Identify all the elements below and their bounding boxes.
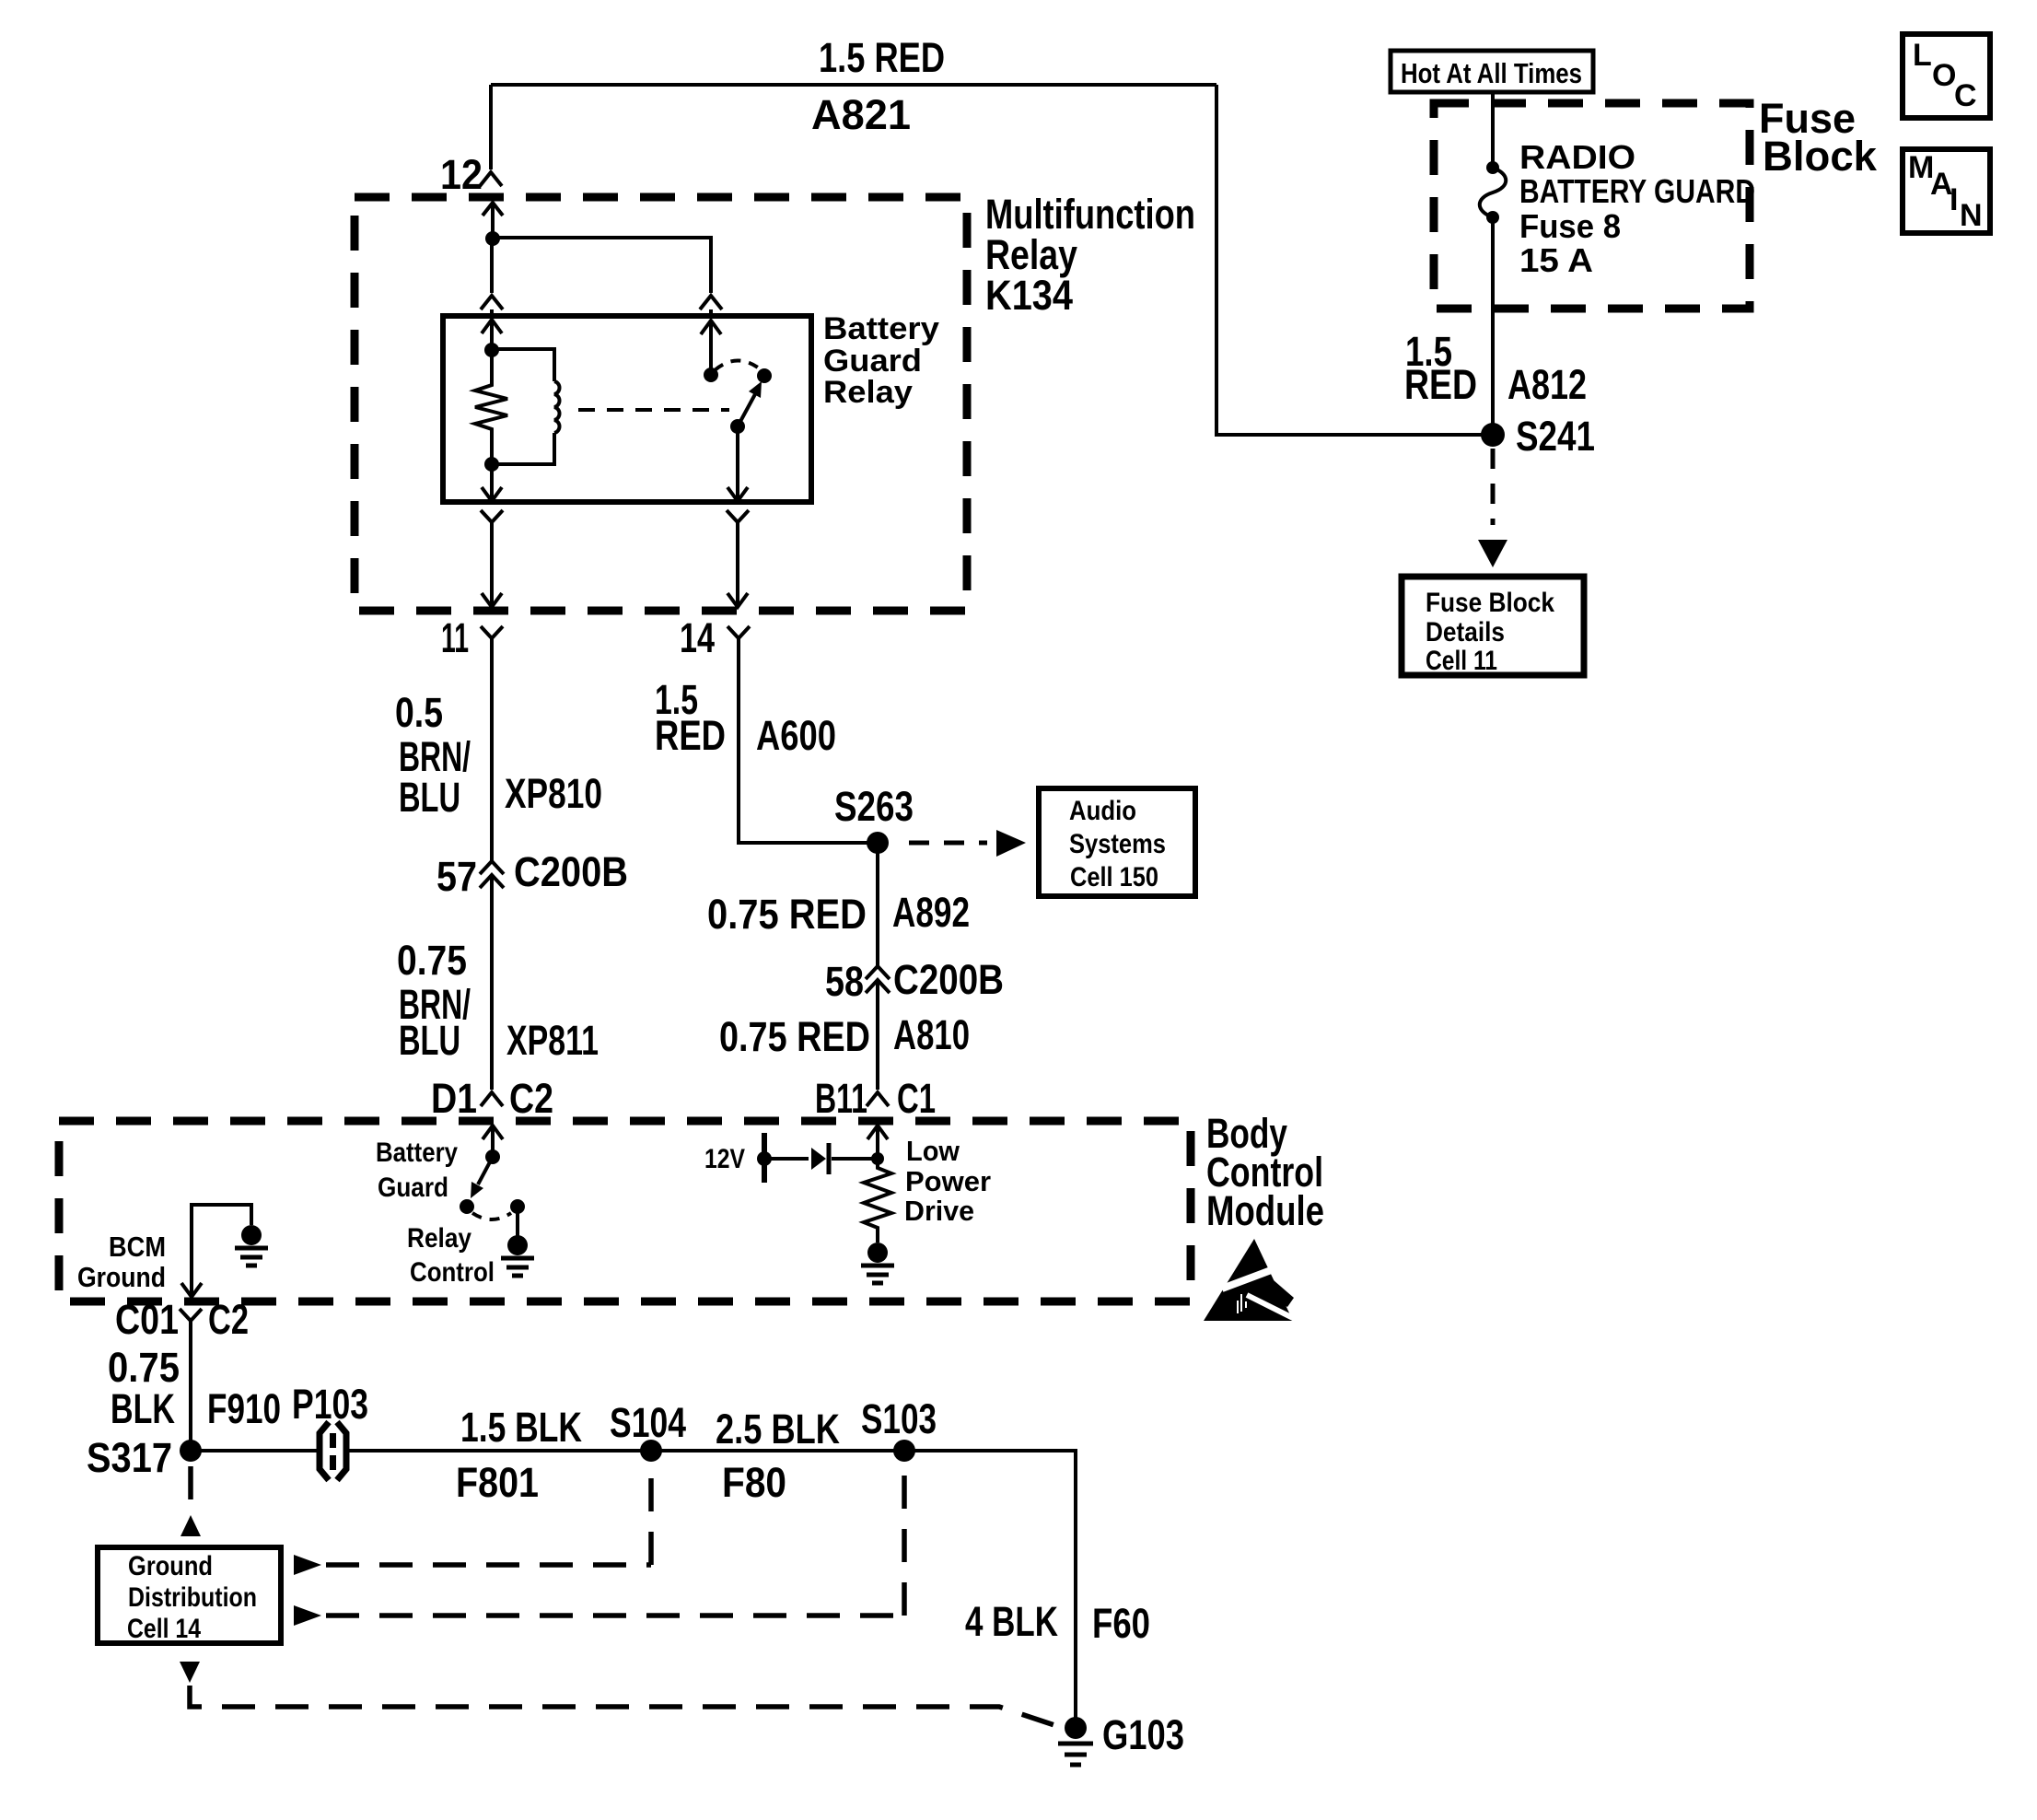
label Relay Control bbox=[407, 1223, 495, 1288]
label 0.5 BRN/BLU bbox=[395, 689, 471, 821]
wire XP811 lower segment bbox=[490, 876, 494, 1090]
wire A812 1.5 RED bbox=[1491, 219, 1495, 424]
wire pin11 inside module bbox=[482, 522, 502, 607]
svg-text:B11: B11 bbox=[815, 1075, 867, 1122]
ground G103 bbox=[1058, 1717, 1093, 1765]
wire ground bus left of P103 bbox=[191, 1449, 318, 1452]
svg-text:C200B: C200B bbox=[893, 956, 1004, 1003]
svg-text:C01: C01 bbox=[115, 1296, 179, 1343]
connector Y pin 14 bbox=[727, 626, 750, 638]
Fuse Block Details Cell 11 reference box bbox=[1402, 577, 1584, 676]
svg-text:BCM: BCM bbox=[109, 1231, 166, 1263]
svg-text:A810: A810 bbox=[893, 1011, 970, 1058]
wire A821 1.5 RED horizontal bbox=[491, 83, 1216, 87]
wire to relay control ground bbox=[516, 1207, 519, 1236]
node S241 splice bbox=[1481, 423, 1505, 447]
svg-text:Battery: Battery bbox=[376, 1137, 458, 1168]
Fuse Block dashed box bbox=[1434, 103, 1750, 309]
wire BCM ground hook bbox=[181, 1205, 251, 1297]
Audio Systems Cell 150 reference box bbox=[1039, 788, 1195, 896]
wire F60 4 BLK bbox=[904, 1451, 1076, 1719]
svg-text:11: 11 bbox=[441, 614, 469, 661]
svg-text:P103: P103 bbox=[292, 1381, 368, 1428]
svg-text:A821: A821 bbox=[811, 91, 911, 138]
svg-text:RED: RED bbox=[1404, 361, 1477, 408]
svg-text:F801: F801 bbox=[456, 1459, 539, 1506]
svg-text:A892: A892 bbox=[892, 889, 970, 936]
svg-text:Control: Control bbox=[410, 1257, 495, 1288]
svg-text:RED: RED bbox=[655, 712, 726, 759]
wire low power drive output arrow bbox=[867, 1126, 888, 1159]
diode D bbox=[811, 1143, 829, 1174]
svg-text:F80: F80 bbox=[722, 1459, 786, 1506]
label 0.75 RED A810 bbox=[719, 1011, 970, 1060]
svg-text:Relay: Relay bbox=[823, 375, 913, 410]
Hot At All Times box bbox=[1391, 51, 1593, 92]
svg-text:Guard: Guard bbox=[378, 1172, 448, 1203]
svg-text:XP811: XP811 bbox=[506, 1017, 599, 1064]
svg-text:BLK: BLK bbox=[111, 1385, 175, 1432]
connector chevron B11/C1 bbox=[867, 1092, 889, 1106]
node S104 splice bbox=[640, 1440, 662, 1462]
svg-text:C200B: C200B bbox=[514, 848, 628, 895]
node switch pivot bbox=[730, 419, 745, 434]
svg-text:C: C bbox=[1954, 78, 1977, 113]
svg-text:N: N bbox=[1960, 198, 1983, 233]
connector chevron right switch pin bbox=[700, 296, 722, 316]
svg-text:0.75: 0.75 bbox=[397, 937, 467, 984]
svg-text:0.75 RED: 0.75 RED bbox=[719, 1013, 870, 1060]
wire F801 1.5 BLK bbox=[348, 1449, 651, 1452]
svg-text:Relay: Relay bbox=[407, 1223, 471, 1254]
wire A810 lower segment bbox=[876, 981, 879, 1090]
wire from Hot At All Times to fuse bbox=[1491, 92, 1495, 166]
wire pin14 inside module bbox=[727, 522, 748, 607]
wire A600 1.5 RED bbox=[739, 638, 868, 843]
wire branch to switch side bbox=[493, 238, 711, 293]
connector chevron D1/C2 bbox=[481, 1092, 503, 1106]
resistor low power drive pull-down bbox=[864, 1159, 891, 1242]
label RADIO BATTERY GUARD Fuse 8 15 A bbox=[1519, 138, 1755, 279]
svg-text:Cell 11: Cell 11 bbox=[1426, 646, 1497, 676]
node low power drive bbox=[871, 1152, 884, 1165]
Ground Distribution Cell 14 reference box bbox=[98, 1547, 281, 1644]
wire battery guard input arrow bbox=[483, 1126, 503, 1157]
wire diode to node bbox=[832, 1157, 878, 1161]
svg-text:12V: 12V bbox=[704, 1144, 745, 1174]
resistor relay coil shunt bbox=[475, 350, 507, 464]
node coil top bbox=[484, 343, 499, 357]
svg-text:Systems: Systems bbox=[1069, 829, 1166, 859]
svg-text:O: O bbox=[1932, 58, 1956, 93]
ground BCM internal bbox=[235, 1225, 268, 1266]
svg-text:F910: F910 bbox=[207, 1385, 281, 1432]
wire 12V to diode bbox=[764, 1157, 809, 1161]
dashed reference arrow to Fuse Block Details bbox=[1478, 449, 1507, 567]
svg-text:Power: Power bbox=[905, 1165, 991, 1197]
node switch fixed contact bbox=[704, 367, 718, 382]
wire A892 0.75 RED bbox=[876, 853, 879, 966]
wire F910 0.75 BLK bbox=[189, 1321, 192, 1451]
svg-text:Fuse 8: Fuse 8 bbox=[1519, 207, 1621, 245]
label 1.5 RED A812 bbox=[1404, 328, 1587, 408]
dashed reference arrow to Audio Systems bbox=[909, 830, 1026, 857]
wire coil out arrow down bbox=[482, 464, 502, 501]
svg-text:Cell 150: Cell 150 bbox=[1070, 862, 1158, 892]
MAIN page reference box bbox=[1903, 149, 1990, 233]
connector Y pin 11 bbox=[481, 626, 503, 638]
wire switch output arrow down bbox=[727, 426, 748, 501]
node S263 splice bbox=[867, 832, 889, 854]
svg-text:Distribution: Distribution bbox=[128, 1582, 257, 1613]
svg-text:XP810: XP810 bbox=[505, 770, 602, 817]
svg-text:S241: S241 bbox=[1516, 413, 1595, 460]
connector C200B pin 58 double chevron bbox=[866, 966, 890, 993]
label Low Power Drive bbox=[904, 1135, 991, 1227]
switch arm with arrowhead bbox=[738, 381, 762, 426]
ground relay control bbox=[501, 1235, 534, 1276]
svg-text:57: 57 bbox=[436, 853, 477, 900]
svg-text:0.5: 0.5 bbox=[395, 689, 443, 736]
node relay control fixed contact bbox=[460, 1199, 474, 1214]
connector chevron left coil pin bbox=[481, 296, 503, 316]
svg-text:Hot At All Times: Hot At All Times bbox=[1401, 57, 1582, 89]
svg-text:Low: Low bbox=[906, 1135, 960, 1167]
node junction top bbox=[485, 231, 500, 246]
ESD sensitive device symbol bbox=[1204, 1239, 1295, 1321]
svg-text:12: 12 bbox=[440, 151, 483, 198]
svg-text:BLU: BLU bbox=[399, 1017, 460, 1064]
svg-text:D1: D1 bbox=[431, 1075, 477, 1122]
label Fuse Block bbox=[1759, 95, 1878, 180]
coil relay winding L bbox=[493, 349, 560, 464]
svg-text:C2: C2 bbox=[509, 1075, 553, 1122]
label BCM Ground bbox=[77, 1231, 166, 1293]
svg-text:C2: C2 bbox=[208, 1296, 249, 1343]
svg-text:14: 14 bbox=[680, 614, 715, 661]
svg-text:G103: G103 bbox=[1102, 1711, 1184, 1758]
fuse Fuse 8 RADIO BATTERY GUARD 15A bbox=[1480, 161, 1507, 224]
svg-text:S103: S103 bbox=[861, 1395, 937, 1442]
svg-text:Module: Module bbox=[1206, 1187, 1324, 1234]
svg-text:A812: A812 bbox=[1507, 361, 1587, 408]
dashed link S317 to ground distribution bbox=[180, 1466, 201, 1536]
svg-text:Guard: Guard bbox=[823, 344, 922, 379]
svg-text:S317: S317 bbox=[87, 1434, 172, 1481]
svg-text:Drive: Drive bbox=[904, 1195, 974, 1227]
label Body Control Module bbox=[1206, 1110, 1324, 1234]
reference arrow to S104 branch bbox=[294, 1466, 651, 1575]
svg-text:S104: S104 bbox=[610, 1399, 686, 1446]
svg-text:1.5 BLK: 1.5 BLK bbox=[460, 1404, 582, 1451]
label 0.75 BLK bbox=[108, 1344, 180, 1432]
wire pin12 into relay with arrow bbox=[483, 203, 503, 239]
dashed link ground distribution to G103 bbox=[180, 1662, 1065, 1729]
svg-text:58: 58 bbox=[825, 958, 864, 1005]
svg-text:Battery: Battery bbox=[823, 311, 939, 346]
switch fixed contact arrow bbox=[701, 321, 721, 375]
wire pin12 drop bbox=[489, 85, 493, 169]
svg-text:S263: S263 bbox=[834, 783, 914, 830]
svg-text:K134: K134 bbox=[985, 272, 1073, 319]
wire right drop to S241 bbox=[1216, 85, 1484, 435]
relay case Battery Guard Relay box bbox=[443, 316, 811, 502]
svg-text:RADIO: RADIO bbox=[1519, 138, 1635, 176]
label 1.5 RED A600 bbox=[655, 676, 836, 759]
reference arrow to S103 branch bbox=[294, 1466, 904, 1626]
svg-text:I: I bbox=[1950, 182, 1958, 217]
connector chevron pin 12 bbox=[480, 172, 502, 186]
LOC page reference box bbox=[1903, 34, 1990, 118]
relay K134 dashed module box bbox=[355, 197, 967, 611]
connector C200B pin 57 double chevron bbox=[480, 861, 504, 888]
node switch moving contact bbox=[757, 368, 772, 383]
svg-text:15 A: 15 A bbox=[1519, 241, 1593, 279]
svg-text:F60: F60 bbox=[1092, 1600, 1150, 1647]
battery guard switch arm with arrowhead bbox=[471, 1157, 493, 1198]
node S103 splice bbox=[893, 1440, 915, 1462]
svg-text:L: L bbox=[1913, 38, 1932, 73]
svg-text:BLU: BLU bbox=[399, 774, 460, 821]
svg-text:Fuse Block: Fuse Block bbox=[1426, 588, 1554, 618]
node coil bottom bbox=[484, 457, 499, 472]
svg-text:Ground: Ground bbox=[128, 1551, 213, 1581]
svg-text:0.75: 0.75 bbox=[108, 1344, 180, 1391]
connector Y C01/C2 bbox=[180, 1309, 202, 1321]
svg-text:0.75 RED: 0.75 RED bbox=[707, 891, 867, 938]
wire coil feed arrow inside box bbox=[482, 320, 502, 350]
svg-text:Block: Block bbox=[1763, 133, 1878, 180]
connector P103 pass-through bbox=[320, 1422, 346, 1480]
battery 12V supply bar bbox=[757, 1133, 772, 1183]
connector chevron below box right bbox=[727, 510, 749, 522]
node S317 splice bbox=[180, 1440, 202, 1462]
svg-text:Cell 14: Cell 14 bbox=[127, 1614, 201, 1644]
svg-text:A600: A600 bbox=[756, 712, 836, 759]
svg-text:BATTERY GUARD: BATTERY GUARD bbox=[1519, 172, 1755, 210]
svg-text:2.5 BLK: 2.5 BLK bbox=[716, 1406, 840, 1452]
svg-text:Details: Details bbox=[1426, 617, 1505, 647]
relay control dashed arc bbox=[472, 1213, 511, 1219]
label 0.75 RED A892 bbox=[707, 889, 970, 938]
label Battery Guard bbox=[376, 1137, 458, 1203]
svg-text:1.5 RED: 1.5 RED bbox=[819, 34, 945, 81]
label Multifunction Relay K134 bbox=[985, 191, 1195, 319]
svg-text:Audio: Audio bbox=[1069, 796, 1136, 826]
wire XP810 0.5 BRN/BLU bbox=[490, 638, 494, 861]
coil-to-switch actuation dashed link bbox=[578, 408, 729, 412]
svg-text:4 BLK: 4 BLK bbox=[965, 1598, 1058, 1645]
wire coil pin stem bbox=[490, 239, 494, 293]
ground low power drive bbox=[861, 1242, 894, 1283]
connector chevron below box left bbox=[481, 510, 503, 522]
node battery guard switch top bbox=[485, 1149, 500, 1164]
BCM dashed module box bbox=[59, 1121, 1191, 1301]
wire F80 2.5 BLK bbox=[651, 1449, 904, 1452]
svg-text:C1: C1 bbox=[897, 1075, 936, 1122]
label Battery Guard Relay bbox=[823, 311, 939, 410]
svg-text:Ground: Ground bbox=[77, 1261, 166, 1293]
node relay control right contact bbox=[510, 1199, 525, 1214]
switch travel dashed arc bbox=[715, 361, 762, 371]
label 0.75 BRN/BLU bbox=[397, 937, 471, 1064]
